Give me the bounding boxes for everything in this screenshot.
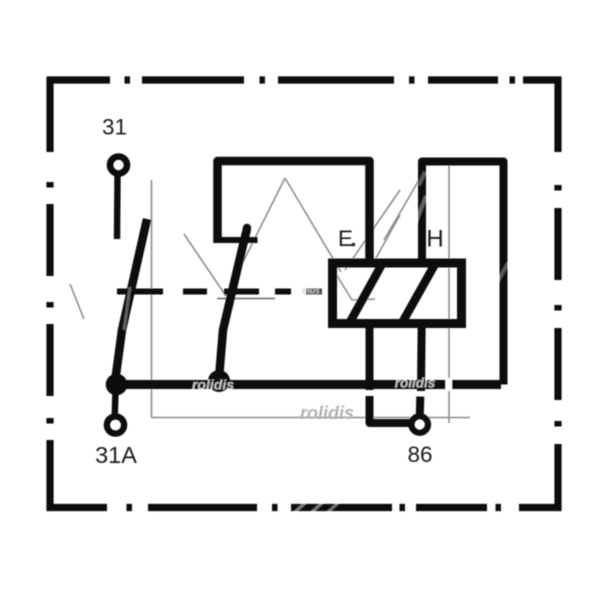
svg-text:H: H: [426, 226, 443, 253]
svg-text:rolidis: rolidis: [395, 376, 436, 391]
svg-text:86: 86: [407, 442, 432, 467]
svg-text:mus: mus: [302, 286, 320, 296]
svg-text:31: 31: [102, 115, 127, 140]
svg-text:rolidis: rolidis: [192, 377, 234, 393]
svg-text:rolidis: rolidis: [300, 403, 354, 423]
svg-text:31A: 31A: [95, 442, 137, 468]
svg-text:E: E: [338, 226, 353, 251]
